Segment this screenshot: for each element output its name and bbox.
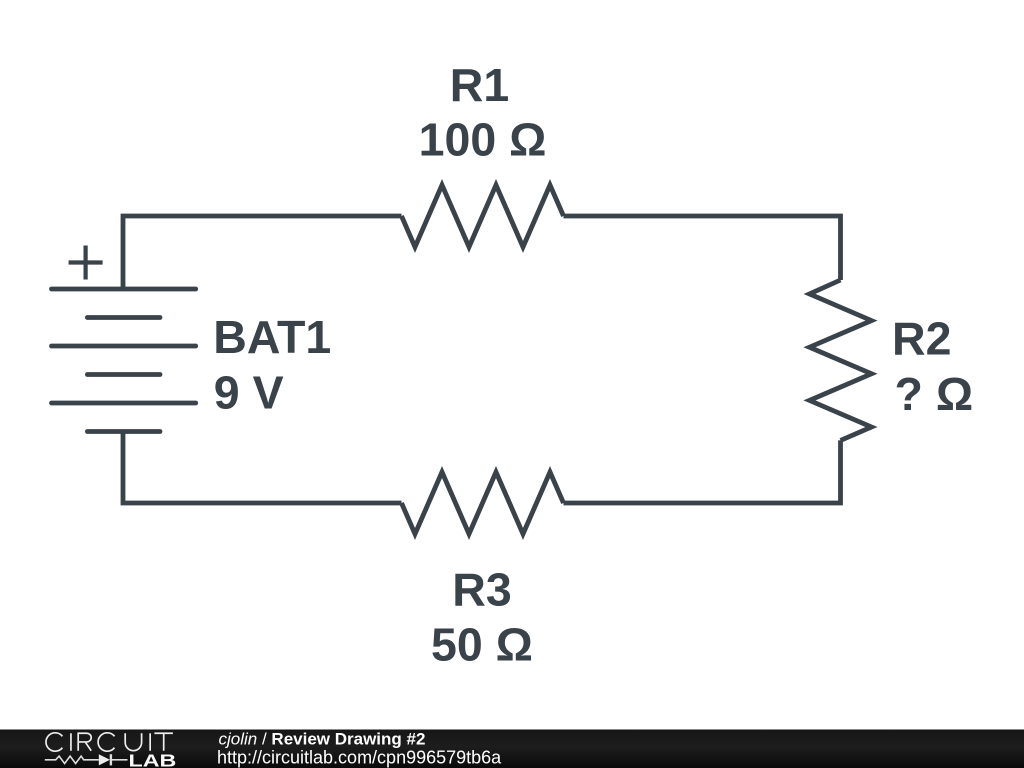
label R3 name <box>452 564 511 616</box>
label R2 value ? &#937; <box>895 368 974 420</box>
battery BAT1 plates <box>52 289 196 432</box>
wire bottom-right from R2 to R3 <box>564 440 841 503</box>
svg-text:? Ω: ? Ω <box>895 368 974 420</box>
svg-text:LAB: LAB <box>129 751 177 768</box>
wire bottom-left from R3 to battery - <box>123 432 402 504</box>
svg-text:9 V: 9 V <box>214 367 284 419</box>
resistor R3 <box>402 472 564 534</box>
wire top-left from battery + to R1 <box>123 216 402 289</box>
svg-text:R3: R3 <box>452 564 511 616</box>
footer url <box>217 747 502 767</box>
svg-text:R2: R2 <box>892 312 951 364</box>
svg-text:50 Ω: 50 Ω <box>431 618 533 670</box>
CircuitLab logo CIRCUIT wordmark <box>46 733 173 751</box>
label BAT1 name <box>213 311 331 363</box>
label BAT1 value 9 V <box>214 367 284 419</box>
label R1 name <box>450 59 509 111</box>
resistor R1 <box>402 185 564 247</box>
label R1 value 100 &#937; <box>419 113 547 165</box>
label R2 name <box>892 312 951 364</box>
svg-text:cjolin / Review Drawing #2: cjolin / Review Drawing #2 <box>219 729 426 748</box>
svg-text:R1: R1 <box>450 59 509 111</box>
resistor R2 <box>810 280 872 440</box>
wire top-right from R1 to R2 <box>564 216 841 280</box>
svg-text:http://circuitlab.com/cpn99657: http://circuitlab.com/cpn996579tb6a <box>217 747 502 767</box>
label R3 value 50 &#937; <box>431 618 533 670</box>
CircuitLab logo LAB wordmark <box>129 751 177 768</box>
svg-text:100 Ω: 100 Ω <box>419 113 547 165</box>
svg-text:BAT1: BAT1 <box>213 311 331 363</box>
CircuitLab logo resistor-diode underline <box>45 754 128 765</box>
battery BAT1 plus polarity mark <box>69 246 103 280</box>
footer bar <box>0 730 1024 768</box>
footer title cjolin / Review Drawing #2 <box>219 729 426 748</box>
